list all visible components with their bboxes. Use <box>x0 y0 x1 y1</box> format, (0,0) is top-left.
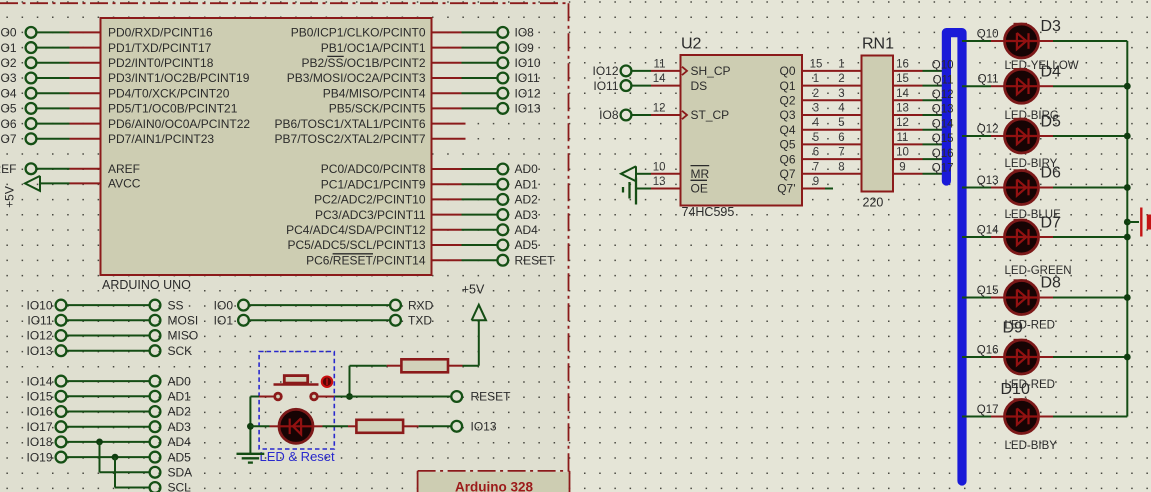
junction reset node <box>346 393 353 400</box>
svg-text:AD1: AD1 <box>168 390 192 404</box>
wire bus to LED D8 <box>962 297 991 299</box>
svg-text:AD3: AD3 <box>168 420 192 434</box>
wire ground rail to LED <box>250 425 269 427</box>
wire bus to LED D10 <box>962 416 991 418</box>
svg-text:D4: D4 <box>1041 64 1062 81</box>
svg-text:MOSI: MOSI <box>168 314 199 328</box>
svg-text:PC1/ADC1/PCINT9: PC1/ADC1/PCINT9 <box>321 177 426 191</box>
pin PB1/OC1A/PCINT1 stub <box>432 47 462 49</box>
svg-text:AD1: AD1 <box>515 177 539 191</box>
wire U2 Q7 to RN1 pin 8 <box>802 173 862 175</box>
wire bus to LED D7 <box>962 236 991 238</box>
wire OE to ground <box>636 188 651 190</box>
node IO18 terminal <box>56 437 67 448</box>
svg-text:D3: D3 <box>1041 18 1062 35</box>
LED D10 cathode bar <box>1027 409 1029 425</box>
resistor R1 right stub <box>448 365 463 367</box>
node AD2 terminal <box>497 194 508 205</box>
svg-text:Q15: Q15 <box>932 133 954 145</box>
pin PB3/MOSI/OC2A/PCINT3 stub <box>432 77 462 79</box>
wire RN1 to bus Q13 <box>923 114 947 116</box>
svg-text:PB3/MOSI/OC2A/PCINT3: PB3/MOSI/OC2A/PCINT3 <box>287 71 426 85</box>
svg-text:11: 11 <box>654 58 666 70</box>
junction on IO19 row <box>112 454 119 461</box>
svg-text:IO12: IO12 <box>515 86 541 100</box>
wire bus to LED D4 <box>962 85 991 87</box>
svg-text:D8: D8 <box>1041 275 1062 292</box>
wire to AD1 <box>462 183 498 185</box>
node IO11 terminal <box>621 80 632 91</box>
junction rail at D7 <box>1124 234 1131 241</box>
wire LED to resistor R2 <box>323 425 349 427</box>
node IO0 terminal <box>26 27 37 38</box>
wire U2 Q0 to RN1 pin 1 <box>802 70 862 72</box>
LED D6 right stub <box>1038 187 1053 189</box>
wire IO16 to AD2 <box>67 411 150 413</box>
svg-text:PD2/INT0/PCINT18: PD2/INT0/PCINT18 <box>108 56 214 70</box>
LED D8 left stub <box>991 297 1005 299</box>
svg-text:IO17: IO17 <box>26 420 52 434</box>
LED D1 anode line <box>279 425 312 427</box>
resistor R2 left stub <box>348 425 356 427</box>
wire Q7' open end <box>825 188 833 190</box>
wire U2 Q4 to RN1 pin 5 <box>802 129 862 131</box>
RN1 right pin 11 stub <box>893 143 923 145</box>
svg-text:IO12: IO12 <box>26 329 52 343</box>
svg-text:6: 6 <box>838 132 844 144</box>
svg-text:Q11: Q11 <box>933 74 954 86</box>
wire U2 Q6 to RN1 pin 7 <box>802 158 862 160</box>
wire LED D10 to cathode rail <box>1053 416 1127 418</box>
RN1 right pin 15 stub <box>893 85 923 87</box>
svg-text:IO0: IO0 <box>214 298 234 312</box>
node IO13 terminal <box>451 421 462 432</box>
wire IO2 to PD2 <box>37 62 70 64</box>
svg-text:Q14: Q14 <box>977 225 999 237</box>
svg-text:Q4: Q4 <box>779 123 795 137</box>
svg-text:D5: D5 <box>1041 114 1062 131</box>
svg-text:IO6: IO6 <box>0 117 17 131</box>
svg-text:11: 11 <box>897 132 909 144</box>
junction LED row <box>247 423 254 430</box>
LED D8 triangle <box>1017 289 1026 305</box>
svg-text:IO3: IO3 <box>0 71 17 85</box>
svg-text:SH_CP: SH_CP <box>691 64 731 78</box>
svg-text:IO7: IO7 <box>0 132 17 146</box>
LED D9 cathode bar <box>1027 349 1029 365</box>
svg-text:7: 7 <box>838 147 844 159</box>
svg-text:RXD: RXD <box>408 298 434 312</box>
wire LED D9 to cathode rail <box>1053 356 1127 358</box>
node AD1 terminal <box>150 391 161 402</box>
svg-text:IO11: IO11 <box>27 314 52 328</box>
svg-text:IO12: IO12 <box>592 64 618 78</box>
svg-text:AD0: AD0 <box>168 374 192 388</box>
LED D4 right stub <box>1038 85 1053 87</box>
wire RN1 to bus Q11 <box>923 85 947 87</box>
cathode rail vertical <box>1126 41 1128 417</box>
LED D10 right stub <box>1038 416 1053 418</box>
node IO15 terminal <box>56 391 67 402</box>
node MOSI terminal <box>150 315 161 326</box>
svg-text:SCK: SCK <box>168 344 193 358</box>
pin PB5/SCK/PCINT5 stub <box>432 107 462 109</box>
node IO7 terminal <box>26 133 37 144</box>
svg-text:3: 3 <box>838 88 844 100</box>
svg-text:AD2: AD2 <box>515 193 539 207</box>
wire IO19 to AD5 <box>67 456 150 458</box>
svg-text:Q5: Q5 <box>779 138 795 152</box>
LED D3 body <box>1005 24 1039 58</box>
svg-text:IO16: IO16 <box>26 405 52 419</box>
wire to AD3 <box>462 214 498 216</box>
wire IO14 to AD0 <box>67 380 150 382</box>
node IO8 terminal <box>621 110 632 121</box>
overbar RESET on PC6 <box>333 253 373 255</box>
node IO1 terminal <box>238 315 249 326</box>
svg-text:IO1: IO1 <box>214 314 234 328</box>
wire reset node to RESET terminal <box>334 396 451 398</box>
LED D4 anode line <box>1005 85 1038 87</box>
svg-text:DS: DS <box>691 79 708 93</box>
wire U2 Q1 to RN1 pin 2 <box>802 85 862 87</box>
node IO3 terminal <box>26 73 37 84</box>
LED D6 anode line <box>1005 186 1038 188</box>
pin PD7/AIN1/PCINT23 stub <box>70 138 101 140</box>
resistor network RN1 body <box>862 56 894 192</box>
LED D10 body <box>1005 400 1039 434</box>
wire RN1 to bus Q14 <box>923 129 947 131</box>
svg-text:Q3: Q3 <box>779 108 795 122</box>
wire IO17 to AD3 <box>67 426 150 428</box>
svg-text:LED-BIBY: LED-BIBY <box>1005 440 1058 452</box>
svg-text:PB7/TOSC2/XTAL2/PCINT7: PB7/TOSC2/XTAL2/PCINT7 <box>275 132 426 146</box>
svg-text:IO2: IO2 <box>0 56 17 70</box>
wire R2 to IO13 <box>419 425 451 427</box>
node AD4 terminal <box>150 437 161 448</box>
U2 pin MR stub <box>651 173 681 175</box>
svg-text:Q12: Q12 <box>932 89 954 101</box>
LED D6 cathode bar <box>1027 180 1029 196</box>
LED D9 top chord <box>1014 339 1028 341</box>
node IO16 terminal <box>56 406 67 417</box>
LED D4 triangle <box>1017 78 1026 94</box>
svg-text:PC2/ADC2/PCINT10: PC2/ADC2/PCINT10 <box>314 193 426 207</box>
pin PC0/ADC0/PCINT8 stub <box>432 168 462 170</box>
pin PD6/AIN0/OC0A/PCINT22 stub <box>70 123 101 125</box>
svg-text:IO9: IO9 <box>515 41 535 55</box>
wire U2 Q3 to RN1 pin 4 <box>802 114 862 116</box>
junction rail at D4 <box>1124 83 1131 90</box>
svg-text:Q15: Q15 <box>977 285 999 297</box>
pin PD3/INT1/OC2B/PCINT19 stub <box>70 77 101 79</box>
node IO5 terminal <box>26 103 37 114</box>
junction rail at D6 <box>1124 184 1131 191</box>
svg-text:AD5: AD5 <box>168 450 192 464</box>
wire IO6 to PD6 <box>37 123 70 125</box>
wire to IO9 <box>462 47 498 49</box>
LED D9 body <box>1005 340 1039 374</box>
pin PB7/TOSC2/XTAL2/PCINT7 stub <box>432 138 466 140</box>
svg-text:74HC595: 74HC595 <box>682 205 735 219</box>
wire LED D3 to cathode rail <box>1053 40 1127 42</box>
LED D6 left stub <box>991 187 1005 189</box>
wire to AD4 <box>462 229 498 231</box>
RN1 right pin 13 stub <box>893 114 923 116</box>
svg-text:PB0/ICP1/CLKO/PCINT0: PB0/ICP1/CLKO/PCINT0 <box>291 26 426 40</box>
svg-text:PC4/ADC4/SDA/PCINT12: PC4/ADC4/SDA/PCINT12 <box>286 223 426 237</box>
wire bus to LED D3 <box>962 40 991 42</box>
power arrow left at MR <box>621 166 636 181</box>
pin PB0/ICP1/CLKO/PCINT0 stub <box>432 31 462 33</box>
template border top <box>0 2 569 4</box>
LED D6 top chord <box>1014 169 1028 171</box>
svg-text:9: 9 <box>899 161 905 173</box>
LED D3 cathode bar <box>1027 33 1029 49</box>
junction on IO18 row <box>96 439 103 446</box>
node RXD terminal <box>390 300 401 311</box>
svg-text:AREF: AREF <box>108 162 140 176</box>
svg-text:12: 12 <box>653 103 666 115</box>
wire RN1 to bus Q17 <box>923 173 947 175</box>
wire +5V down <box>478 320 480 365</box>
pin PB4/MISO/PCINT4 stub <box>432 92 462 94</box>
wire IO18 to SDA vertical <box>99 442 101 472</box>
svg-text:IO5: IO5 <box>0 102 17 116</box>
junction rail at battery <box>1124 219 1131 226</box>
wire LED D4 to cathode rail <box>1053 85 1127 87</box>
svg-text:Q17: Q17 <box>932 163 954 175</box>
svg-text:IO18: IO18 <box>26 435 52 449</box>
svg-text:AD3: AD3 <box>515 208 539 222</box>
ground symbol <box>237 453 265 455</box>
U2 pin SH_CP clock chevron <box>682 67 687 75</box>
node IO0 terminal <box>238 300 249 311</box>
node IO6 terminal <box>26 118 37 129</box>
LED D1 left stub <box>270 425 280 427</box>
U2 pin ST_CP clock chevron <box>682 111 687 119</box>
svg-text:AREF: AREF <box>0 162 17 176</box>
pin PC4/ADC4/SDA/PCINT12 stub <box>432 229 462 231</box>
LED D1 right stub <box>313 425 323 427</box>
node IO12 terminal <box>56 330 67 341</box>
svg-text:IO11: IO11 <box>593 79 618 93</box>
wire LED D7 to cathode rail <box>1053 236 1127 238</box>
LED D10 triangle <box>1017 408 1026 424</box>
wire IO3 to PD3 <box>37 77 70 79</box>
LED D8 cathode bar <box>1027 290 1029 306</box>
resistor R2 body <box>356 420 403 433</box>
pin PC6/RESET/PCINT14 stub <box>432 259 462 261</box>
wire +5V to resistor R1 <box>463 365 479 367</box>
button SW1 left contact <box>275 393 282 400</box>
wire rail to battery BAT1 <box>1127 221 1139 223</box>
button SW1 knob arrow <box>326 378 328 385</box>
junction rail at D8 <box>1124 294 1131 301</box>
svg-text:12: 12 <box>896 117 909 129</box>
svg-text:PC3/ADC3/PCINT11: PC3/ADC3/PCINT11 <box>315 208 426 222</box>
node IO13 terminal <box>56 345 67 356</box>
U2 pin SH_CP stub <box>651 70 681 72</box>
wire IO8 to U2 ST_CP <box>632 114 651 116</box>
svg-text:Q16: Q16 <box>977 345 999 357</box>
LED D8 anode line <box>1005 296 1038 298</box>
LED D1 triangle <box>293 418 301 434</box>
svg-text:SDA: SDA <box>168 466 193 480</box>
svg-text:PD6/AIN0/OC0A/PCINT22: PD6/AIN0/OC0A/PCINT22 <box>108 117 250 131</box>
LED D4 cathode bar <box>1027 78 1029 94</box>
LED D7 cathode bar <box>1027 229 1029 245</box>
svg-text:Q12: Q12 <box>977 124 999 136</box>
svg-text:Q17: Q17 <box>977 404 999 416</box>
wire to SCL horizontal <box>115 487 149 489</box>
svg-text:LED-GREEN: LED-GREEN <box>1005 265 1072 277</box>
svg-text:D10: D10 <box>1001 381 1030 398</box>
blue enclosure LED & Reset <box>259 352 334 450</box>
RN1 right pin 16 stub <box>893 70 923 72</box>
pin PD4/T0/XCK/PCINT20 stub <box>70 92 101 94</box>
svg-text:AVCC: AVCC <box>108 177 141 191</box>
IC U1 ARDUINO UNO body <box>101 18 432 275</box>
wire bus to LED D6 <box>962 187 991 189</box>
pin PD5/T1/OC0B/PCINT21 stub <box>70 107 101 109</box>
svg-text:Q10: Q10 <box>932 60 954 72</box>
wire to IO13 <box>462 107 498 109</box>
wire to IO8 <box>462 31 498 33</box>
button right pin stub <box>318 396 334 398</box>
wire to SDA horizontal <box>100 471 150 473</box>
node AD5 terminal <box>150 452 161 463</box>
RN1 right pin 12 stub <box>893 129 923 131</box>
wire LED D6 to cathode rail <box>1053 187 1127 189</box>
node AD4 terminal <box>497 224 508 235</box>
svg-text:Q7: Q7 <box>779 167 795 181</box>
wire U2 Q5 to RN1 pin 6 <box>802 143 862 145</box>
wire bus to LED D5 <box>962 135 991 137</box>
wire IO12 to MISO <box>67 335 150 337</box>
wire IO10 to SS <box>67 304 150 306</box>
svg-text:U2: U2 <box>681 36 702 53</box>
wire to AD2 <box>462 198 498 200</box>
wire IO11 to U2 DS <box>632 85 651 87</box>
svg-text:Q10: Q10 <box>977 29 999 41</box>
svg-text:2: 2 <box>838 73 844 85</box>
junction rail at D9 <box>1124 354 1131 361</box>
svg-text:PC6/RESET/PCINT14: PC6/RESET/PCINT14 <box>306 253 426 267</box>
pin PB6/TOSC1/XTAL1/PCINT6 stub <box>432 123 466 125</box>
wire RN1 to bus Q15 <box>923 143 947 145</box>
svg-text:IO11: IO11 <box>515 71 540 85</box>
LED D3 anode line <box>1005 40 1038 42</box>
wire IO0 to RXD <box>249 304 390 306</box>
wire to IO11 <box>462 77 498 79</box>
node MISO terminal <box>150 330 161 341</box>
svg-text:14: 14 <box>896 88 909 100</box>
svg-text:4: 4 <box>838 103 845 115</box>
node IO12 terminal <box>621 66 632 77</box>
overbar SS on PB2 <box>327 55 343 57</box>
wire RN1 to bus Q10 <box>923 70 947 72</box>
LED D9 left stub <box>991 356 1005 358</box>
svg-text:Q11: Q11 <box>978 74 999 86</box>
svg-text:2: 2 <box>813 88 819 100</box>
wire to AD0 <box>462 168 498 170</box>
wire IO11 to MOSI <box>67 319 150 321</box>
svg-text:IO13: IO13 <box>471 420 497 434</box>
RN1 right pin 10 stub <box>893 158 923 160</box>
LED D7 triangle <box>1017 229 1026 245</box>
svg-text:Q0: Q0 <box>779 64 795 78</box>
svg-text:IO10: IO10 <box>26 298 52 312</box>
LED D8 right stub <box>1038 297 1053 299</box>
svg-text:IO8: IO8 <box>599 108 619 122</box>
template border right <box>568 3 570 471</box>
node IO10 terminal <box>497 57 508 68</box>
LED D8 top chord <box>1014 279 1028 281</box>
wire AREF <box>37 168 70 170</box>
wire to IO10 <box>462 62 498 64</box>
svg-text:Q16: Q16 <box>932 148 954 160</box>
svg-text:4: 4 <box>813 117 820 129</box>
svg-text:IO4: IO4 <box>0 86 17 100</box>
svg-text:SCL: SCL <box>168 481 192 492</box>
LED D5 anode line <box>1005 135 1038 137</box>
svg-text:10: 10 <box>653 161 666 173</box>
LED D9 triangle <box>1017 349 1026 365</box>
svg-text:IO0: IO0 <box>0 26 17 40</box>
svg-text:PB1/OC1A/PCINT1: PB1/OC1A/PCINT1 <box>321 41 426 55</box>
LED D5 left stub <box>991 135 1005 137</box>
svg-text:IO13: IO13 <box>515 102 541 116</box>
node IO10 terminal <box>56 300 67 311</box>
IC U2 74HC595 body <box>681 55 803 206</box>
svg-text:13: 13 <box>653 176 666 188</box>
LED D3 left stub <box>991 40 1005 42</box>
U2 pin OE stub <box>651 188 681 190</box>
node AD3 terminal <box>150 421 161 432</box>
svg-text:IO19: IO19 <box>26 450 52 464</box>
svg-text:PD4/T0/XCK/PCINT20: PD4/T0/XCK/PCINT20 <box>108 86 230 100</box>
svg-text:IO13: IO13 <box>26 344 52 358</box>
node AD0 terminal <box>150 376 161 387</box>
svg-text:TXD: TXD <box>408 314 432 328</box>
svg-text:5: 5 <box>838 117 844 129</box>
svg-text:RN1: RN1 <box>862 36 894 53</box>
svg-text:RESET: RESET <box>471 390 512 404</box>
wire RN1 to bus Q16 <box>923 158 947 160</box>
wire IO4 to PD4 <box>37 92 70 94</box>
wire LED D5 to cathode rail <box>1053 135 1127 137</box>
node IO4 terminal <box>26 88 37 99</box>
pin PC2/ADC2/PCINT10 stub <box>432 198 462 200</box>
svg-text:Q13: Q13 <box>977 175 999 187</box>
button SW1 base plate <box>274 383 319 385</box>
svg-text:IO8: IO8 <box>515 26 535 40</box>
node IO17 terminal <box>56 421 67 432</box>
battery BAT1 plate short <box>1147 215 1151 230</box>
node RESET terminal <box>497 255 508 266</box>
svg-text:IO14: IO14 <box>26 374 52 388</box>
wire IO13 to SCK <box>67 350 150 352</box>
svg-text:+5V: +5V <box>3 186 17 208</box>
LED D5 right stub <box>1038 135 1053 137</box>
svg-text:6: 6 <box>813 147 819 159</box>
svg-text:IO10: IO10 <box>515 56 541 70</box>
power +5V arrow symbol <box>472 305 486 321</box>
resistor R1 body <box>401 359 448 372</box>
junction rail at D5 <box>1124 133 1131 140</box>
svg-text:PD7/AIN1/PCINT23: PD7/AIN1/PCINT23 <box>108 132 214 146</box>
